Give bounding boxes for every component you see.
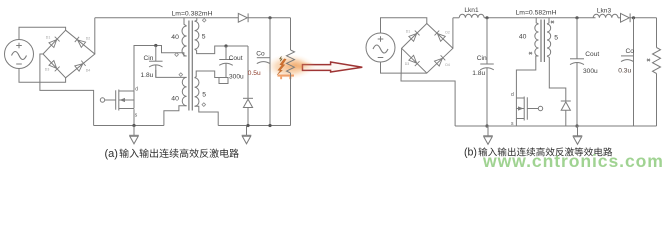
bridge BR2 (right) diode bottom-right — [435, 55, 446, 66]
primary winding P2 (40T lower) — [182, 77, 186, 105]
wire primary P3 top stub — [536, 18, 538, 24]
svg-text:D2: D2 — [445, 30, 450, 34]
ground symbol (right, under Cin) — [483, 126, 493, 144]
red block arrow — [303, 62, 363, 72]
ground rail (left primary side) — [94, 125, 164, 127]
wire output node to diode D5b — [247, 46, 249, 98]
bridge BR2 (right) diode top-right — [435, 31, 446, 42]
bridge BR2 (right) diode top-left — [409, 31, 420, 42]
Cout negative plate box — [219, 78, 228, 84]
wire P2 bottom to ground rail — [164, 106, 187, 126]
junction dot Cout top (right) — [575, 16, 578, 19]
wire secondary S1 top stub — [195, 18, 197, 22]
polarity mark S3 — [551, 21, 555, 24]
secondary winding S1 (5T upper) — [195, 21, 199, 49]
junction dot Cout bottom (right) — [575, 124, 578, 127]
polarity mark P2 — [179, 73, 183, 77]
diode D6 (right, to ground rail) — [561, 101, 571, 110]
wire M1 drain to node A / primary P1 bottom — [134, 46, 187, 91]
capacitor Cin (right) — [480, 18, 494, 126]
svg-text:Lm=0.582mH: Lm=0.582mH — [516, 10, 557, 17]
diode D5a (left top rail, series output) — [238, 13, 248, 22]
explosion glow at load R1 — [265, 54, 315, 79]
svg-text:D1: D1 — [406, 29, 411, 33]
wire V1 top to bridge top vertex — [19, 27, 66, 39]
wire P3 bottom to M2 drain — [516, 56, 538, 98]
svg-text:s: s — [135, 113, 138, 119]
top rail (left circuit, D5a cathode to load corner) — [249, 17, 291, 19]
transformer core (left) — [189, 21, 192, 111]
primary winding P3 (40T right) — [535, 24, 539, 56]
svg-text:1.8u: 1.8u — [472, 70, 485, 77]
bridge BR1 (left) diode bottom-left — [49, 61, 60, 72]
ground symbol (right, under Cout) — [573, 126, 583, 144]
polarity mark S1 — [202, 18, 206, 22]
wire primary P1 top stub — [184, 18, 187, 26]
wire load R2 bottom riser — [656, 74, 658, 127]
svg-text:40: 40 — [171, 34, 179, 41]
svg-text:Lkn3: Lkn3 — [597, 7, 612, 14]
svg-text:www.cntronics.com: www.cntronics.com — [482, 151, 664, 171]
polarity mark P3 — [529, 52, 533, 55]
top rail (right, bridge to Lkn1) — [453, 17, 459, 19]
wire bridge BR2 negative output to ground rail — [401, 48, 455, 126]
junction dot Co top (right) — [632, 16, 635, 19]
svg-text:D3: D3 — [45, 67, 50, 71]
wire D6 anode to ground rail — [565, 110, 567, 126]
bridge BR1 (left) diode top-right — [75, 37, 86, 48]
wire S1 bottom to output node (Cout top / D5 riser) — [195, 46, 248, 54]
explosion lightning bolt — [277, 59, 286, 75]
svg-text:Cout: Cout — [229, 55, 243, 62]
MOSFET M2 (right) — [516, 97, 542, 121]
ground rail (right circuit) — [455, 125, 656, 127]
wire S3 bottom to diode D6 — [547, 56, 566, 101]
caption (a) 输入输出连续高效反激电路 — [105, 148, 239, 160]
wire Cin bottom to primary P2 top — [156, 70, 187, 77]
wire secondary S3 top stub — [547, 18, 549, 24]
capacitor Co (left) — [257, 58, 270, 64]
capacitor Cout (right) — [570, 18, 584, 126]
inductor Lkn1 — [459, 14, 484, 18]
svg-text:(b): (b) — [464, 147, 477, 159]
wire bridge BR1 positive output riser — [94, 18, 96, 54]
wire load R1 top riser — [290, 18, 292, 50]
ground rail (left secondary side) — [218, 125, 290, 127]
ground symbol (left, under D5b) — [242, 126, 252, 144]
svg-text:1.8u: 1.8u — [141, 72, 154, 79]
AC source V2 (right circuit) — [366, 33, 395, 62]
svg-text:Cin: Cin — [477, 55, 487, 62]
svg-text:D1: D1 — [46, 36, 51, 40]
inductor Lkn3 — [593, 14, 618, 18]
svg-text:D2: D2 — [86, 37, 91, 41]
svg-text:D3: D3 — [405, 62, 410, 66]
wire D5b anode to ground rail — [247, 108, 249, 126]
svg-text:0.3u: 0.3u — [618, 68, 631, 75]
svg-text:Co: Co — [256, 50, 265, 57]
load resistor R1 (left) — [287, 50, 295, 73]
explosion glow tail over arrow — [292, 62, 316, 72]
transformer core (right) — [541, 20, 544, 63]
diode bridge BR2 (right) diamond wires — [402, 24, 453, 74]
svg-text:(a): (a) — [105, 148, 118, 160]
capacitor Cout (left) — [219, 46, 233, 78]
capacitor Co (right) — [621, 56, 634, 62]
wire V2 top to bridge top vertex — [381, 18, 427, 33]
junction dot Cin top (right) — [485, 16, 488, 19]
svg-text:Lm=0.382mH: Lm=0.382mH — [172, 10, 213, 17]
wire load R2 top riser — [656, 18, 658, 48]
bridge BR2 (right) diode bottom-left — [409, 55, 420, 66]
svg-text:Cin: Cin — [144, 55, 154, 62]
top rail (right, Lkn1 to Lkn3) — [484, 17, 595, 19]
svg-text:5: 5 — [554, 34, 558, 41]
wire Co rail (left) — [269, 18, 271, 126]
svg-text:40: 40 — [171, 96, 179, 103]
junction dot Co top (left) — [268, 16, 271, 19]
svg-text:40: 40 — [519, 34, 527, 41]
diode bridge BR1 (left) diamond wires — [43, 30, 95, 78]
AC source V1 (left circuit) — [5, 40, 34, 69]
caption (b) 输入输出连续高效反激等效电路 — [464, 147, 612, 159]
svg-text:D4: D4 — [445, 63, 450, 67]
svg-text:Cout: Cout — [585, 51, 599, 58]
svg-text:5: 5 — [202, 34, 206, 41]
secondary winding S2 (5T lower) — [195, 78, 199, 106]
capacitor Cin (left) — [149, 46, 163, 78]
secondary winding S3 (5T right) — [547, 24, 551, 56]
top rail (left circuit, bridge to diode D5a anode) — [95, 17, 239, 19]
bridge BR1 (left) diode top-left — [49, 37, 60, 48]
diode D7 (right top rail) — [621, 13, 631, 22]
primary winding P1 (40T upper) — [182, 26, 187, 56]
wire V2 bottom to bridge bottom vertex — [381, 62, 427, 73]
polarity mark S2 — [202, 103, 206, 107]
mark at load resistor (right) — [647, 59, 651, 62]
junction node A (Cin top) — [154, 44, 157, 47]
wire bridge BR2 positive output riser — [452, 18, 454, 49]
explosion base bar — [278, 75, 295, 80]
svg-text:0.5u: 0.5u — [248, 70, 261, 77]
bridge BR1 (left) diode bottom-right — [75, 61, 86, 72]
svg-text:d: d — [511, 92, 514, 98]
junction dot Co bottom (left) — [268, 124, 271, 127]
wire S2 bottom to ground rail — [195, 106, 219, 125]
svg-text:d: d — [135, 87, 138, 93]
top rail (right, D7 to load corner) — [630, 17, 656, 19]
junction dot Cin bottom ground (right) — [485, 124, 488, 127]
diode D5b (left, to ground rail) — [243, 98, 253, 107]
wire load R1 bottom riser — [290, 73, 292, 126]
wire Lkn3 to diode D7 — [618, 17, 621, 19]
svg-text:300u: 300u — [229, 74, 244, 81]
svg-text:300u: 300u — [583, 68, 598, 75]
junction dot Cout top — [224, 44, 227, 47]
junction dot D5b ground — [246, 124, 249, 127]
wire bridge BR1 negative output to ground rail — [40, 54, 94, 126]
svg-text:Lkn1: Lkn1 — [464, 7, 479, 14]
polarity mark P1 — [175, 53, 179, 57]
wire V1 bottom to bridge bottom vertex — [19, 69, 66, 83]
wire M1 source to ground rail — [133, 109, 135, 125]
ground symbol (left, under M1) — [129, 126, 139, 144]
MOSFET M1 (left) — [100, 90, 134, 111]
svg-text:5: 5 — [202, 92, 206, 99]
svg-text:D4: D4 — [86, 68, 91, 72]
wire M2 source to ground rail — [515, 119, 517, 127]
load resistor R2 (right) — [653, 48, 661, 74]
svg-text:Co: Co — [626, 48, 635, 55]
junction dot M1 source ground — [132, 124, 135, 127]
wire Co rail (right) — [633, 18, 635, 126]
wire S2 top to Cout negative box — [195, 71, 219, 78]
